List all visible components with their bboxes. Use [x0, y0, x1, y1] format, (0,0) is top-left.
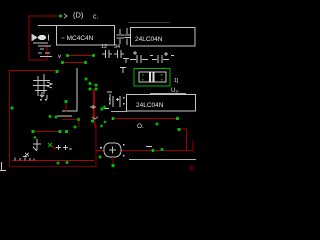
IC U2 box top-right: [131, 28, 196, 47]
wire bottom-left bright: [12, 160, 94, 162]
wire white bottom right: [129, 159, 196, 161]
svg-text:(D): (D): [73, 11, 84, 20]
node bottom center b: [66, 161, 69, 164]
text dots under Q1: [40, 99, 47, 101]
capacitor C6 electrolytic: [150, 52, 174, 63]
crystal Y1 body: [139, 72, 166, 82]
wire ground stub: [65, 103, 67, 112]
wire stub B: [63, 62, 85, 64]
capacitor C8 electrolytic round: [104, 143, 121, 157]
node q col c: [100, 125, 103, 128]
node above wire: [49, 115, 52, 118]
node box top end: [55, 70, 58, 73]
wire bottom right horizontal: [96, 150, 193, 152]
wire c8 stub: [112, 157, 114, 164]
wire right vertical column: [94, 89, 96, 128]
node bottom right a: [151, 149, 154, 152]
node q col a: [103, 106, 106, 109]
node stub A left: [66, 54, 69, 57]
text arrow mark: [64, 14, 67, 18]
capacitor Cb: [114, 50, 124, 58]
capacitor C7 vertical (left of box2): [125, 28, 131, 45]
node mid-left a: [31, 130, 34, 133]
text label left of crystal: [120, 68, 126, 74]
node stub B left: [61, 61, 64, 64]
node gr right: [77, 118, 80, 121]
ground bottom-left corner: [0, 162, 6, 171]
node below wire: [34, 136, 37, 139]
node col top4: [89, 88, 92, 91]
text minus mark: [146, 146, 152, 148]
IC U1 box: [38, 25, 56, 27]
node q col b: [104, 121, 107, 124]
capacitor C2 vertical: [117, 29, 125, 44]
wire tiny diagonal: [52, 146, 56, 149]
node right step: [177, 128, 180, 131]
node cap left: [100, 107, 103, 110]
node gr bottom: [74, 126, 77, 129]
capacitor Ca: [102, 50, 112, 58]
node x mark green: [48, 143, 52, 147]
text cap dots: [109, 97, 125, 105]
node stub A right: [92, 54, 95, 57]
wire white right mid: [150, 93, 186, 95]
node left edge: [10, 106, 13, 109]
svg-text:34: 34: [114, 44, 120, 50]
svg-text:24LC04N: 24LC04N: [136, 102, 164, 109]
crystal Y1 selection box: [134, 69, 170, 87]
node col top1: [85, 78, 88, 81]
wire big outer box: [10, 70, 56, 72]
node mid wire right: [176, 117, 179, 120]
wire top-left L: [29, 16, 59, 60]
capacitor C4 electrolytic: [130, 51, 148, 63]
node left of ground: [55, 116, 58, 119]
wire right stub up: [192, 141, 194, 152]
node bottom right corner blob: [189, 166, 194, 171]
wire ground to right: [62, 120, 79, 128]
transistor Q2 cluster bottom-left: [23, 139, 41, 157]
node col top2: [89, 82, 92, 85]
node mid wire left: [111, 117, 114, 120]
wire battery bottom lead: [111, 111, 127, 113]
svg-text:c.: c.: [93, 14, 99, 21]
node bottom center a: [57, 162, 60, 165]
node top-left wire end: [59, 14, 62, 17]
node c8 bottom: [111, 164, 114, 167]
node ground stub top: [64, 100, 67, 103]
node mid-left c: [65, 130, 68, 133]
svg-text:1]: 1]: [174, 78, 179, 84]
text pin marks under diode: [38, 49, 52, 57]
svg-text:v: v: [58, 54, 61, 60]
transistor Q1 cluster: [33, 74, 52, 99]
capacitor C5 polarized (left of box3): [113, 96, 120, 107]
node col top5: [95, 88, 98, 91]
text c8 marks: [100, 144, 125, 157]
svg-text:12: 12: [101, 44, 107, 50]
node isolated: [156, 123, 159, 126]
node col top3: [95, 84, 98, 87]
capacitor C3 small: [123, 59, 129, 64]
svg-text:24LC04N: 24LC04N: [135, 36, 163, 43]
node mid-left b: [58, 130, 61, 133]
svg-text:~ MC4C4N: ~ MC4C4N: [61, 35, 94, 42]
wire stub A: [68, 55, 93, 57]
wire mid-left horizontal: [33, 131, 60, 133]
wire right step: [179, 129, 187, 151]
wire mid horizontal: [112, 118, 177, 120]
text marks right of column: [90, 92, 112, 119]
node c8 left: [99, 156, 102, 159]
node xtal inner marks: [142, 74, 163, 81]
faint ghost line top right: [128, 22, 170, 24]
svg-text:O.: O.: [137, 123, 144, 130]
node col jog: [91, 119, 94, 122]
diode D1: [32, 35, 51, 46]
text ticks on wire: [15, 158, 34, 161]
potentiometer RV1 cluster: [56, 145, 72, 150]
crystal Y1 bar: [149, 72, 151, 82]
IC U3 box bottom: [127, 95, 196, 112]
ground symbol left: [57, 68, 77, 116]
node bottom right b: [161, 148, 164, 151]
node stub B right: [84, 61, 87, 64]
